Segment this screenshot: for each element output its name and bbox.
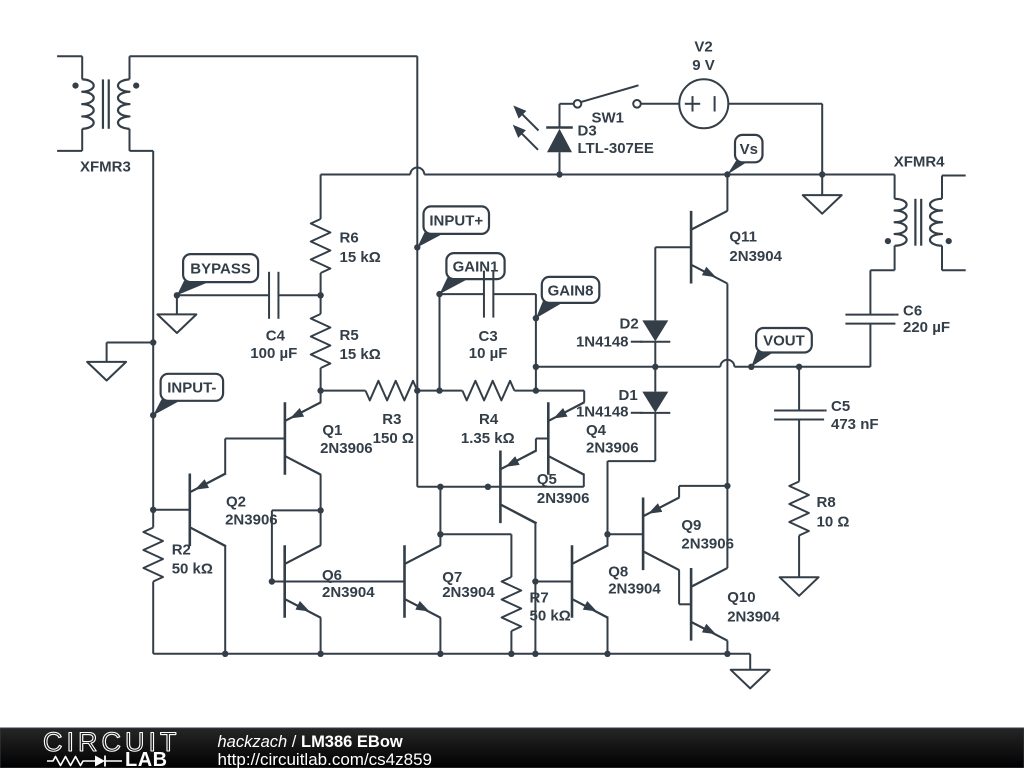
- svg-text:50 kΩ: 50 kΩ: [172, 561, 213, 578]
- node junction GAIN1 column: [436, 387, 442, 393]
- svg-text:2N3904: 2N3904: [322, 584, 375, 601]
- transistor Q2: [190, 474, 226, 547]
- label D1: [576, 387, 642, 420]
- wire XFMR4 left bottom to C6: [870, 246, 894, 315]
- svg-text:2N3904: 2N3904: [442, 584, 495, 601]
- svg-text:C3: C3: [479, 328, 498, 345]
- wire XFMR4 left top: [894, 175, 896, 199]
- resistor R4: [462, 381, 514, 401]
- flag BYPASS: [174, 254, 258, 298]
- node junction Q2 base / R2 top: [150, 507, 156, 513]
- wire C3 to GAIN8 corner: [493, 294, 536, 318]
- wire R7 bottom lead: [510, 631, 512, 654]
- svg-text:R7: R7: [530, 590, 549, 607]
- wire INPUT+ column to mirror bus: [417, 391, 440, 487]
- transistor Q10: [691, 568, 727, 641]
- node junction V2 return on bus: [819, 171, 825, 177]
- transistor Q4: [548, 402, 584, 475]
- svg-text:150 Ω: 150 Ω: [373, 430, 414, 447]
- label Q5: [537, 471, 590, 507]
- transistor Q7: [405, 545, 441, 618]
- logo LAB: [125, 749, 168, 768]
- wire R3 left lead: [321, 390, 366, 392]
- node junction Q5 collector on rail: [532, 651, 538, 657]
- footer title text: [218, 733, 403, 751]
- svg-text:LTL-307EE: LTL-307EE: [578, 140, 654, 157]
- svg-text:9 V: 9 V: [692, 57, 715, 74]
- node junction Q7 on bus: [437, 484, 443, 490]
- svg-text:Q10: Q10: [727, 589, 755, 606]
- node junction R4/GAIN8 column: [533, 387, 539, 393]
- svg-text:220 µF: 220 µF: [903, 319, 950, 336]
- wire XFMR4 right bottom stub: [942, 246, 966, 271]
- label Q9: [681, 517, 734, 553]
- label C4 value: [250, 328, 297, 362]
- node junction GAIN8/VOUT bus: [533, 364, 539, 370]
- svg-text:LAB: LAB: [125, 749, 168, 768]
- wire C5 to R8: [798, 420, 800, 482]
- svg-text:http://circuitlab.com/cs4z859: http://circuitlab.com/cs4z859: [218, 750, 432, 768]
- svg-text:Q6: Q6: [322, 567, 342, 584]
- wire Q6 collector: [285, 510, 321, 564]
- node junction Q1 collector: [317, 507, 323, 513]
- wire BYPASS ground stem: [176, 295, 178, 314]
- wire SW1 to V2: [641, 103, 680, 105]
- svg-text:2N3906: 2N3906: [586, 439, 639, 456]
- svg-text:R3: R3: [382, 411, 401, 428]
- wire left vertical INPUT- net: [152, 151, 154, 510]
- node junction C4/R6/R5: [317, 292, 323, 298]
- wire Q11 collector: [691, 175, 727, 230]
- wire Q11 emitter vertical: [726, 284, 728, 569]
- svg-text:BYPASS: BYPASS: [190, 261, 251, 278]
- label Q8: [608, 563, 661, 597]
- wire VOUT bus left: [536, 366, 655, 368]
- wire Q7 collector: [405, 487, 441, 564]
- svg-text:Q1: Q1: [322, 422, 342, 439]
- resistor R8: [789, 482, 809, 536]
- node junction D3 on top bus: [556, 171, 562, 177]
- wire VOUT bus mid: [655, 366, 720, 368]
- label XFMR3: [80, 159, 131, 176]
- label Q11: [729, 229, 782, 266]
- svg-text:2N3906: 2N3906: [681, 536, 734, 553]
- svg-text:Q4: Q4: [586, 422, 607, 439]
- svg-text:R2: R2: [172, 542, 191, 559]
- wire D2 to VOUT bus: [654, 342, 656, 367]
- svg-text:D3: D3: [578, 122, 597, 139]
- node junction Q10 emitter on rail: [724, 651, 730, 657]
- wire Q9 base lead: [608, 533, 644, 535]
- wire Q9 emitter: [643, 486, 727, 516]
- wire mirror bus to Q5 base: [440, 486, 583, 488]
- svg-text:XFMR3: XFMR3: [80, 159, 131, 176]
- wire rail to ground: [749, 654, 751, 670]
- transistor Q8: [572, 545, 608, 618]
- wire XFMR3 primary bottom stub: [57, 129, 82, 151]
- wire Q6-Q7 base bus: [272, 581, 405, 583]
- wire R4 right lead: [514, 390, 536, 392]
- wire Q8 emitter: [572, 599, 608, 654]
- svg-text:100 µF: 100 µF: [250, 345, 297, 362]
- wire Q2 collector: [190, 527, 225, 654]
- wire to left ground: [107, 343, 154, 362]
- wire R8 bottom lead: [798, 536, 800, 578]
- wire Q8 collector: [572, 534, 608, 564]
- svg-text:2N3906: 2N3906: [537, 490, 590, 507]
- switch SW1: [574, 85, 641, 107]
- label V2: [692, 39, 715, 75]
- label R4 value: [461, 411, 515, 447]
- wire C4 to junction: [278, 294, 320, 296]
- wire top bus left segment: [321, 174, 411, 176]
- svg-text:D1: D1: [619, 387, 638, 404]
- resistor R6: [311, 219, 331, 273]
- wire Q5 collector: [500, 505, 535, 654]
- svg-text:hackzach / LM386 EBow: hackzach / LM386 EBow: [218, 733, 403, 751]
- flag VOUT: [748, 328, 812, 370]
- svg-text:1N4148: 1N4148: [576, 403, 629, 420]
- svg-text:Q8: Q8: [608, 563, 628, 580]
- diode D1: [640, 392, 670, 413]
- label C3 value: [469, 328, 508, 362]
- node junction D2/D1 on VOUT bus: [652, 364, 658, 370]
- label Q6: [322, 567, 375, 601]
- capacitor C3: [484, 271, 493, 318]
- voltage source V2: [679, 79, 728, 128]
- wire R3 to R4: [417, 390, 439, 392]
- ground BYPASS: [157, 314, 196, 333]
- wire D3 top to SW1: [560, 104, 574, 128]
- label D2: [576, 315, 642, 350]
- wire Q10 collector: [691, 568, 727, 587]
- label R5 value: [340, 327, 381, 363]
- svg-text:GAIN1: GAIN1: [453, 259, 499, 276]
- svg-text:2N3904: 2N3904: [608, 581, 661, 598]
- flag INPUT+: [414, 206, 489, 250]
- wire Q10 emitter: [691, 622, 727, 654]
- flag INPUT-: [150, 374, 223, 419]
- wire R6 top lead: [320, 175, 322, 220]
- node junction Q8 emitter on rail: [604, 651, 610, 657]
- wire GAIN1 vertical: [439, 294, 441, 391]
- label Q4: [586, 422, 639, 456]
- footer url text: [218, 750, 432, 768]
- svg-text:15 kΩ: 15 kΩ: [340, 346, 381, 363]
- svg-text:R5: R5: [340, 327, 359, 344]
- wire Q5 emitter to Q4 base: [500, 439, 548, 470]
- svg-text:C4: C4: [266, 328, 286, 345]
- wire XFMR3 secondary top to INPUT+ column: [130, 56, 418, 79]
- label Q7: [442, 569, 495, 601]
- ground bottom rail: [731, 670, 770, 689]
- wire D1 bottom to Q8 collector node: [608, 413, 656, 535]
- label C5 value: [831, 398, 879, 433]
- svg-text:R8: R8: [817, 494, 836, 511]
- wire Q11 base lead: [655, 246, 691, 248]
- svg-text:Vs: Vs: [740, 141, 758, 158]
- wire hop over Q11 emitter line: [720, 360, 734, 367]
- ground Vs rail: [803, 195, 842, 214]
- svg-text:10 µF: 10 µF: [469, 345, 508, 362]
- label XFMR4: [894, 153, 945, 170]
- svg-text:C6: C6: [903, 303, 922, 320]
- wire Q1 emitter: [285, 391, 321, 421]
- wire R6 bottom lead: [320, 273, 322, 295]
- node junction R7 on rail: [508, 651, 514, 657]
- svg-text:D2: D2: [620, 315, 639, 332]
- wire XFMR3 secondary bottom: [130, 129, 154, 151]
- svg-text:INPUT+: INPUT+: [429, 213, 483, 230]
- wire D1 top: [654, 367, 656, 392]
- wire GAIN8 vertical: [535, 318, 537, 390]
- wire hop over INPUT+ column: [410, 168, 424, 175]
- svg-text:2N3904: 2N3904: [727, 608, 780, 625]
- svg-text:C5: C5: [831, 398, 850, 415]
- resistor R2: [143, 528, 163, 582]
- node junction Q8 base tap: [532, 578, 538, 584]
- wire Q4 collector: [548, 456, 584, 487]
- wire Q2 emitter to Q1 base: [190, 439, 285, 493]
- node junction Q6 base tap: [269, 578, 275, 584]
- wire Vs ground stem: [821, 175, 823, 196]
- node junction Q8 collector node: [604, 531, 610, 537]
- svg-text:VOUT: VOUT: [763, 333, 805, 350]
- node junction Q6 emitter on rail: [317, 651, 323, 657]
- footer bar: [0, 728, 1024, 768]
- wire R2 bottom lead: [152, 582, 154, 654]
- wire Q2 base lead: [153, 509, 190, 511]
- capacitor C4: [269, 272, 278, 319]
- svg-text:1N4148: 1N4148: [576, 334, 629, 351]
- svg-text:V2: V2: [694, 39, 712, 56]
- node junction R5 bottom: [317, 387, 323, 393]
- node junction left-gnd tap: [150, 339, 156, 345]
- svg-text:1.35 kΩ: 1.35 kΩ: [461, 430, 515, 447]
- svg-text:50 kΩ: 50 kΩ: [530, 607, 571, 624]
- label C6 value: [903, 303, 950, 337]
- wire C5 top lead: [798, 367, 800, 411]
- label D3: [578, 122, 654, 157]
- svg-text:2N3904: 2N3904: [729, 248, 782, 265]
- wire XFMR3 primary top stub: [57, 56, 82, 79]
- svg-text:GAIN8: GAIN8: [548, 282, 594, 299]
- wire Q9 collector to Q10 base: [643, 551, 691, 604]
- wire V2 to right corner: [728, 104, 822, 175]
- resistor R3: [366, 381, 418, 401]
- ground R8: [780, 577, 819, 596]
- label SW1: [592, 110, 625, 127]
- capacitor C5: [774, 411, 827, 420]
- logo resistor-diode glyph: [47, 756, 122, 767]
- node junction unnamed on bus: [485, 484, 491, 490]
- wire R4 left lead: [440, 390, 463, 392]
- wire VOUT bus right: [734, 366, 799, 368]
- logo CIRCUIT: [43, 727, 181, 757]
- label R3 value: [373, 411, 414, 447]
- node junction R3/INPUT+ column: [414, 387, 420, 393]
- transistor Q5: [500, 451, 536, 524]
- node junction Q2 collector on rail: [222, 651, 228, 657]
- svg-text:R4: R4: [479, 411, 499, 428]
- resistor R5: [311, 314, 331, 368]
- wire C6 bottom to VOUT bus: [799, 324, 870, 367]
- flag GAIN1: [436, 253, 504, 297]
- wire R2 top lead: [152, 510, 154, 528]
- wire Q4 emitter: [548, 402, 584, 421]
- wire INPUT+ vertical: [416, 56, 418, 390]
- ground left: [87, 362, 126, 381]
- transformer XFMR4: [885, 199, 952, 246]
- wire D3 bottom: [559, 152, 561, 174]
- wire bottom rail: [153, 653, 750, 655]
- diode D2: [640, 320, 670, 341]
- transistor Q11: [691, 211, 727, 284]
- transistor Q9: [643, 498, 679, 571]
- node junction Q7 emitter on rail: [437, 651, 443, 657]
- svg-text:Q5: Q5: [537, 471, 557, 488]
- wire R5 bottom lead: [320, 368, 322, 391]
- svg-text:XFMR4: XFMR4: [894, 153, 945, 170]
- svg-text:INPUT-: INPUT-: [167, 380, 216, 397]
- label R8 value: [817, 494, 850, 531]
- wire Q7 emitter: [405, 599, 441, 654]
- wire top bus right segment: [424, 174, 894, 176]
- transistor Q1: [285, 402, 321, 475]
- label R6 value: [340, 230, 381, 267]
- wire Q1 collector to Q6 base: [272, 510, 321, 581]
- flag GAIN8: [533, 277, 600, 322]
- wire Q8 base lead: [535, 581, 572, 583]
- svg-text:Q11: Q11: [729, 229, 757, 246]
- svg-text:473 nF: 473 nF: [831, 416, 879, 433]
- label Q2: [225, 494, 278, 529]
- node junction Q7 collector tap: [437, 531, 443, 537]
- label R2 value: [172, 542, 213, 578]
- wire XFMR4 right top stub: [942, 176, 966, 199]
- flag Vs: [724, 135, 762, 178]
- transistor Q6: [285, 545, 321, 618]
- wire Q6 emitter: [285, 599, 321, 654]
- svg-text:2N3906: 2N3906: [320, 440, 373, 457]
- wire R5 top lead: [320, 295, 322, 314]
- wire Q7 tap to R7: [440, 534, 511, 577]
- LED D3: [513, 106, 573, 153]
- wire BYPASS to C4: [177, 294, 269, 296]
- svg-text:10 Ω: 10 Ω: [817, 513, 850, 530]
- svg-text:15 kΩ: 15 kΩ: [340, 249, 381, 266]
- label Q10: [727, 589, 780, 625]
- capacitor C6: [845, 315, 898, 324]
- node junction Q9 emitter on Q11 line: [724, 483, 730, 489]
- wire Q11 base down to D2: [654, 247, 656, 320]
- svg-text:Q2: Q2: [226, 494, 246, 511]
- transformer XFMR3: [72, 79, 139, 128]
- wire GAIN1 to C3: [440, 293, 484, 295]
- wire Q1 collector: [285, 456, 321, 510]
- resistor R7: [502, 577, 522, 631]
- label Q1: [320, 422, 373, 457]
- wire R4 junction to Q4 emitter: [536, 391, 584, 403]
- label R7 value: [530, 590, 571, 625]
- node junction C5 tap: [796, 364, 802, 370]
- svg-text:R6: R6: [340, 230, 359, 247]
- svg-text:2N3906: 2N3906: [225, 512, 278, 529]
- svg-text:Q9: Q9: [681, 517, 701, 534]
